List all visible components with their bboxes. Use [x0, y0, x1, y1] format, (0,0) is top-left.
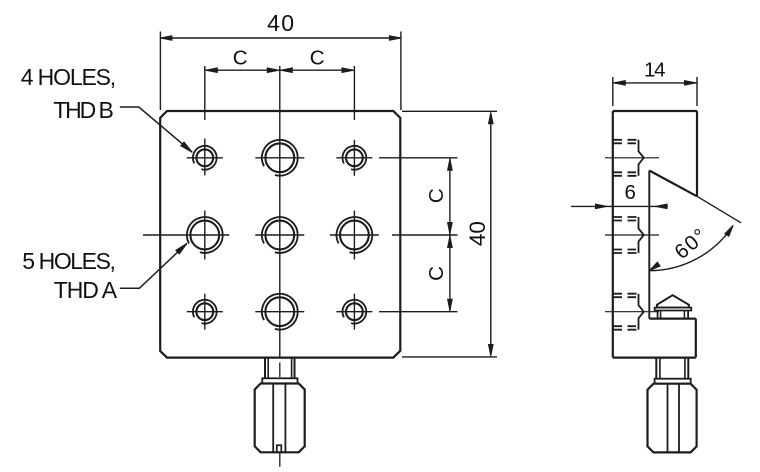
hole bottom-left THD B — [193, 300, 217, 324]
side view bottom edge — [613, 357, 696, 359]
dim C lower-right arrowheads — [448, 236, 453, 248]
dim 40 top arrowheads — [160, 36, 172, 41]
dim 40 right extension lines — [402, 110, 497, 112]
leader THD A arrowhead — [176, 243, 187, 254]
center line column 3 upper — [353, 66, 355, 120]
center line column 3 mid/low — [353, 211, 355, 260]
side view top edge — [613, 110, 697, 112]
side knob knurl lines — [667, 384, 669, 453]
front knob knurl lines — [272, 384, 274, 453]
dim 6 line — [571, 205, 668, 207]
dim C left arrowheads — [206, 68, 218, 73]
dim C right arrowheads — [281, 68, 293, 73]
front axis below knob — [279, 452, 281, 467]
side view left edge — [612, 111, 614, 358]
leader THD B — [120, 107, 193, 152]
hole top-left THD B — [193, 146, 217, 170]
svg-text:C: C — [425, 188, 448, 203]
front thumbscrew knob — [255, 384, 305, 453]
front thumbscrew collar — [262, 378, 297, 383]
svg-text:40: 40 — [267, 10, 294, 36]
dim 6 arrowheads — [596, 204, 608, 209]
side view bevel edge — [649, 171, 697, 197]
side thumbscrew stud — [655, 358, 657, 379]
front thumbscrew axis dash — [279, 363, 281, 378]
center line column 1 upper — [204, 66, 206, 120]
side view right edge — [696, 111, 698, 196]
side view bevel extension line — [697, 196, 741, 223]
angle 60 arrowheads — [649, 262, 660, 271]
dim 14 extension lines — [612, 77, 614, 106]
center line row 1 — [187, 157, 223, 159]
svg-text:THD B: THD B — [53, 97, 114, 123]
cone screw point — [657, 295, 689, 307]
side hidden hole row 3 center line — [605, 311, 659, 313]
svg-text:5 HOLES,: 5 HOLES, — [22, 248, 116, 274]
dim C right line — [280, 69, 355, 71]
side hidden hole row 1 center line — [605, 157, 659, 159]
cone screw legs — [657, 311, 659, 319]
dim C left line — [205, 69, 280, 71]
svg-text:60°: 60° — [670, 224, 711, 263]
cone screw washer — [655, 308, 692, 311]
front thumbscrew stud — [264, 358, 266, 379]
hole bottom-middle THD A — [262, 294, 298, 330]
dim 40 right line — [490, 113, 492, 355]
leader THD B arrowhead — [181, 142, 193, 152]
hole mid-left THD A — [187, 217, 223, 253]
side hidden hole row 1 — [613, 139, 637, 141]
front view plate outline — [160, 111, 400, 358]
side view web edge (apex vertical) — [648, 171, 650, 319]
side hidden hole row 3 — [613, 293, 637, 295]
svg-text:6: 6 — [624, 181, 635, 204]
hole mid-right THD A — [336, 217, 372, 253]
front knob slot — [277, 445, 282, 452]
center line row 3 — [187, 311, 223, 313]
dim 14 line — [613, 82, 697, 84]
leader THD A — [120, 243, 187, 288]
svg-text:C: C — [310, 46, 325, 69]
svg-text:40: 40 — [465, 221, 490, 246]
svg-text:4 HOLES,: 4 HOLES, — [21, 64, 116, 90]
side thumbscrew collar — [655, 379, 691, 384]
svg-text:C: C — [233, 46, 248, 69]
hole top-right THD B — [342, 146, 366, 170]
svg-text:14: 14 — [644, 58, 666, 81]
center line row 2 — [143, 234, 229, 236]
dim 40 top extension lines — [159, 32, 161, 111]
side thumbscrew knob — [648, 384, 697, 453]
angle 60 arc — [649, 225, 733, 270]
svg-text:THD A: THD A — [54, 277, 118, 303]
dim 40 right arrowheads — [489, 112, 494, 124]
side hidden hole row 2 center line — [605, 234, 659, 236]
center line column 1 mid/low — [204, 211, 206, 260]
side hidden hole row 2 — [613, 216, 637, 218]
dim C upper-right arrowheads — [448, 159, 453, 171]
dim 14 arrowheads — [614, 81, 626, 86]
dim 40 top line — [160, 37, 401, 39]
dim C lower-right line — [449, 235, 451, 312]
center line column 2 (vertical axis) — [279, 66, 281, 358]
side view block top edge — [649, 318, 696, 320]
hole top-middle THD A — [262, 140, 298, 176]
svg-text:C: C — [425, 266, 448, 281]
hole center THD A — [262, 217, 298, 253]
dim C upper-right line — [449, 158, 451, 235]
side view block right edge — [695, 319, 697, 358]
hole bottom-right THD B — [342, 300, 366, 324]
